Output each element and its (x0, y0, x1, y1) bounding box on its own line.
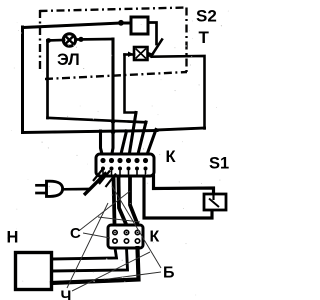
svg-text:Ч: Ч (61, 289, 72, 300)
svg-text:К: К (166, 148, 177, 166)
svg-text:ЭЛ: ЭЛ (57, 51, 80, 69)
svg-text:Б: Б (163, 265, 175, 282)
svg-text:К: К (150, 229, 160, 246)
svg-text:Т: Т (199, 28, 210, 47)
svg-text:S1: S1 (209, 155, 229, 173)
svg-text:Н: Н (7, 229, 19, 247)
svg-text:С: С (70, 225, 81, 242)
svg-text:S2: S2 (196, 7, 217, 26)
